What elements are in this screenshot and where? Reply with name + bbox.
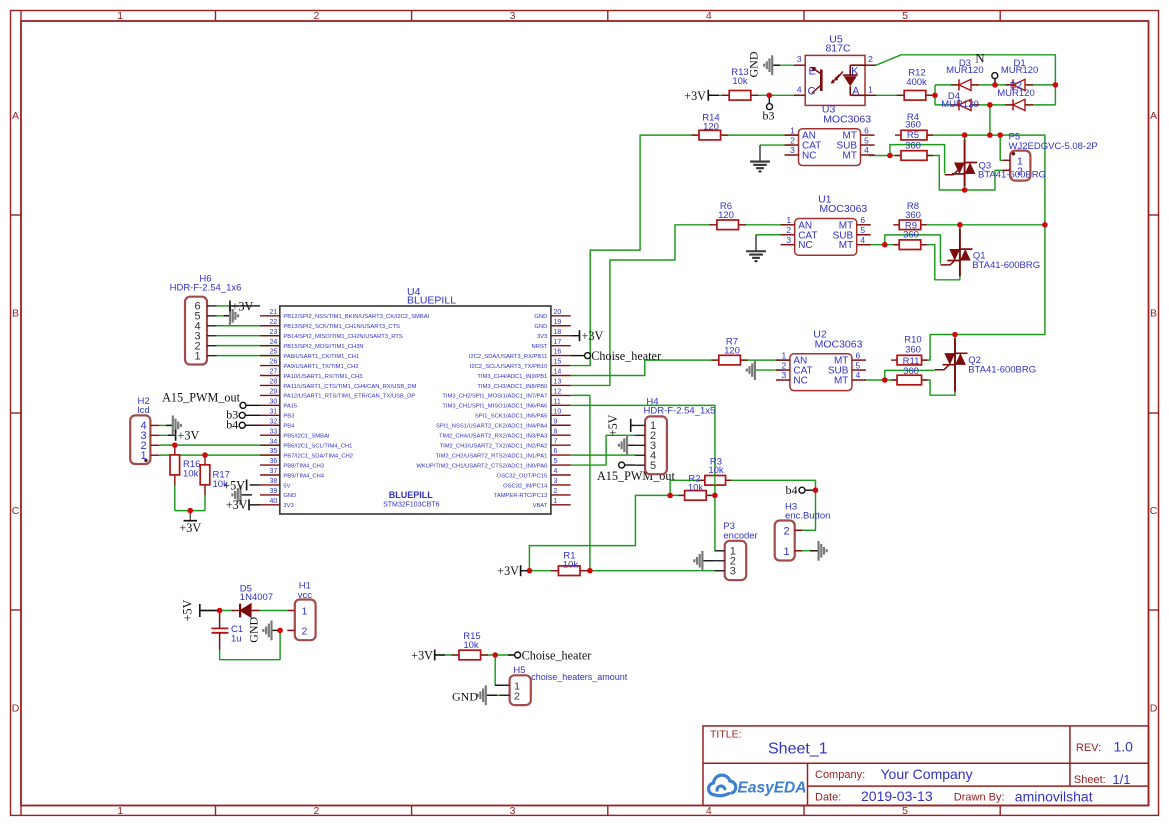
svg-text:PB4: PB4 [283,424,295,430]
svg-text:PB7/I2C1_SDA/TIM4_CH2: PB7/I2C1_SDA/TIM4_CH2 [283,453,353,459]
svg-text:817C: 817C [825,43,851,55]
svg-text:enc.Button: enc.Button [785,511,830,522]
svg-text:BTA41-600BRG: BTA41-600BRG [972,260,1040,271]
svg-text:MT: MT [839,240,853,251]
svg-text:1: 1 [554,498,558,505]
svg-text:PB15/SPI2_MOSI/TIM1_CH3N: PB15/SPI2_MOSI/TIM1_CH3N [283,344,363,350]
svg-text:4: 4 [864,145,869,155]
svg-text:WJ2EDGVC-5.08-2P: WJ2EDGVC-5.08-2P [1009,141,1098,152]
svg-text:N: N [975,51,985,66]
svg-text:36: 36 [270,458,278,465]
svg-text:GND: GND [247,616,261,642]
svg-text:5V: 5V [283,483,290,489]
svg-text:360: 360 [905,141,921,152]
svg-text:1: 1 [868,84,873,94]
svg-text:Your Company: Your Company [881,766,973,782]
svg-text:1: 1 [117,10,123,22]
svg-text:Sheet_1: Sheet_1 [768,741,828,758]
svg-text:39: 39 [270,488,278,495]
svg-text:GND: GND [283,493,296,499]
svg-text:BLUEPILL: BLUEPILL [407,295,456,307]
svg-text:10k: 10k [708,465,724,476]
svg-text:SPI1_NSS1/USART2_CK2/ADC1_IN4/: SPI1_NSS1/USART2_CK2/ADC1_IN4/PA4 [436,424,548,430]
svg-text:TITLE:: TITLE: [710,729,742,741]
svg-text:GND: GND [534,324,547,330]
svg-text:26: 26 [270,359,278,366]
svg-text:PB12/SPI2_NSS/TIM1_BKIN/USART3: PB12/SPI2_NSS/TIM1_BKIN/USART3_CK/I2C2_S… [283,314,429,320]
svg-text:5: 5 [860,225,865,235]
svg-text:+3V: +3V [178,429,200,443]
svg-text:I2C2_SDA/USART3_RX/PB11: I2C2_SDA/USART3_RX/PB11 [469,354,547,360]
svg-text:6: 6 [860,215,865,225]
svg-text:27: 27 [270,369,278,376]
svg-text:16: 16 [554,349,562,356]
svg-text:7: 7 [554,438,558,445]
svg-text:C: C [12,505,20,517]
svg-text:5: 5 [650,460,656,472]
svg-text:38: 38 [270,478,278,485]
svg-text:C: C [1150,505,1158,517]
svg-text:1: 1 [786,215,791,225]
svg-text:400k: 400k [906,77,927,88]
svg-text:34: 34 [270,438,278,445]
svg-text:13: 13 [554,379,562,386]
svg-text:2: 2 [514,690,520,702]
svg-text:2: 2 [786,225,791,235]
svg-text:360: 360 [905,119,921,130]
svg-text:33: 33 [270,428,278,435]
svg-text:PB8/TIM4_CH3: PB8/TIM4_CH3 [283,463,324,469]
svg-text:19: 19 [554,319,562,326]
svg-text:choise_heaters_amount: choise_heaters_amount [531,672,628,682]
svg-text:11: 11 [554,398,561,405]
svg-text:Sheet:: Sheet: [1074,774,1106,786]
svg-text:6: 6 [856,350,861,360]
svg-text:MT: MT [834,376,848,387]
svg-text:MOC3063: MOC3063 [823,113,871,125]
svg-text:A15_PWM_out: A15_PWM_out [162,390,240,404]
svg-text:+3V: +3V [232,299,254,313]
svg-text:28: 28 [270,379,278,386]
svg-text:360: 360 [905,344,921,355]
svg-text:15: 15 [554,359,562,366]
svg-text:4: 4 [706,805,712,817]
svg-text:35: 35 [270,448,278,455]
svg-text:b3: b3 [763,109,775,123]
svg-text:A: A [1150,110,1157,122]
svg-text:4: 4 [554,468,558,475]
svg-text:4: 4 [856,370,861,380]
svg-text:PA11/USART1_CTS/TIM1_CH4/CAN_R: PA11/USART1_CTS/TIM1_CH4/CAN_RX/USB_DM [283,384,416,390]
svg-text:2: 2 [1017,165,1023,177]
svg-text:B: B [12,308,19,320]
svg-text:OSC32_IN/PC14: OSC32_IN/PC14 [503,483,548,489]
svg-text:23: 23 [270,329,278,336]
svg-text:1N4007: 1N4007 [240,592,273,603]
svg-text:6: 6 [864,125,869,135]
svg-text:3V3: 3V3 [283,503,293,509]
svg-text:PB6/I2C1_SCL/TIM4_CH1: PB6/I2C1_SCL/TIM4_CH1 [283,443,352,449]
svg-text:10k: 10k [688,482,704,493]
svg-text:1: 1 [782,350,787,360]
svg-text:5: 5 [864,135,869,145]
svg-text:18: 18 [554,329,562,336]
svg-text:+5V: +5V [606,414,620,436]
svg-text:GND: GND [452,689,478,703]
svg-text:TIM2_CH4/USART2_RX2/ADC1_IN3/P: TIM2_CH4/USART2_RX2/ADC1_IN3/PA3 [439,434,547,440]
svg-text:SPI1_SCK1/ADC1_IN5/PA5: SPI1_SCK1/ADC1_IN5/PA5 [475,414,547,420]
svg-text:I2C2_SCL/USART3_TX/PB10: I2C2_SCL/USART3_TX/PB10 [470,364,548,370]
svg-text:10k: 10k [563,560,579,571]
svg-text:+3V: +3V [411,648,433,662]
svg-text:MUR120: MUR120 [941,99,979,110]
svg-text:5: 5 [856,360,861,370]
svg-text:H5: H5 [513,665,525,676]
svg-text:TIM3_CH1/SPI1_MISO1/ADC1_IN6/P: TIM3_CH1/SPI1_MISO1/ADC1_IN6/PA6 [442,404,547,410]
svg-text:+3V: +3V [684,89,706,103]
svg-text:MT: MT [843,151,857,162]
svg-text:encoder: encoder [723,530,757,541]
svg-text:4: 4 [706,10,712,22]
svg-text:1: 1 [194,350,200,362]
svg-text:2: 2 [783,525,789,537]
svg-text:aminovilshat: aminovilshat [1015,789,1093,805]
svg-text:30: 30 [270,398,278,405]
svg-text:HDR-F-2.54_1x5: HDR-F-2.54_1x5 [644,406,716,417]
svg-text:GND: GND [747,51,761,77]
svg-text:29: 29 [270,389,278,396]
svg-text:Date:: Date: [815,792,841,804]
svg-text:1: 1 [302,606,308,618]
svg-text:6: 6 [554,448,558,455]
svg-text:360: 360 [903,229,919,240]
svg-text:22: 22 [270,319,278,326]
svg-text:A: A [12,110,19,122]
svg-text:120: 120 [718,210,734,221]
svg-text:PA12/USART1_RTS/TIM1_ETR/CAN_T: PA12/USART1_RTS/TIM1_ETR/CAN_TX/USB_DP [283,394,415,400]
svg-text:D: D [1150,703,1158,715]
svg-text:360: 360 [905,210,921,221]
svg-text:2: 2 [313,10,319,22]
svg-text:+3V: +3V [179,521,201,535]
svg-text:PA8/USART1_CK/TIM1_CH1: PA8/USART1_CK/TIM1_CH1 [283,354,359,360]
svg-text:B: B [1150,308,1157,320]
svg-text:31: 31 [270,408,278,415]
svg-text:TIM2_CH2/USART2_RTS2/ADC1_IN1/: TIM2_CH2/USART2_RTS2/ADC1_IN1/PA1 [436,453,548,459]
svg-text:32: 32 [270,418,278,425]
svg-text:25: 25 [270,349,278,356]
svg-text:37: 37 [270,468,278,475]
svg-text:2: 2 [554,488,558,495]
svg-text:360: 360 [903,366,919,377]
svg-text:Drawn By:: Drawn By: [954,792,1005,804]
svg-text:b4: b4 [226,418,238,432]
svg-text:NC: NC [798,240,812,251]
svg-text:NC: NC [793,376,807,387]
svg-text:PB3: PB3 [283,414,294,420]
svg-text:+5V: +5V [223,478,245,492]
svg-text:PB13/SPI2_SCK/TIM1_CH1N/USART3: PB13/SPI2_SCK/TIM1_CH1N/USART3_CTS [283,324,400,330]
svg-text:2: 2 [302,625,308,637]
svg-text:10k: 10k [463,640,479,651]
svg-text:3: 3 [790,145,795,155]
svg-text:3: 3 [797,54,802,64]
svg-text:PB5/I2C1_SMBAI: PB5/I2C1_SMBAI [283,434,329,440]
svg-text:+5V: +5V [181,599,195,621]
svg-text:BTA41-600BRG: BTA41-600BRG [968,364,1036,375]
svg-text:120: 120 [724,345,740,356]
svg-text:2: 2 [313,805,319,817]
svg-text:12: 12 [554,389,562,396]
svg-text:TIM2_CH3/USART2_TX2/ADC1_IN2/P: TIM2_CH3/USART2_TX2/ADC1_IN2/PA2 [440,443,548,449]
svg-text:10k: 10k [183,468,199,479]
svg-text:NC: NC [802,151,816,162]
svg-text:120: 120 [703,122,719,133]
svg-text:8: 8 [554,428,558,435]
svg-text:3: 3 [510,10,516,22]
svg-text:2: 2 [790,135,795,145]
svg-text:REV:: REV: [1076,742,1101,754]
svg-text:1: 1 [783,546,789,558]
svg-text:3: 3 [730,565,736,577]
svg-text:PA15: PA15 [283,404,297,410]
svg-text:b4: b4 [786,483,798,497]
svg-text:GND: GND [534,314,547,320]
svg-text:PA10/USART1_RX/TIM1_CH3: PA10/USART1_RX/TIM1_CH3 [283,374,362,380]
svg-text:40: 40 [270,498,278,505]
svg-text:Choise_heater: Choise_heater [522,648,592,662]
svg-text:TIM3_CH3/ADC1_IN8/PB0: TIM3_CH3/ADC1_IN8/PB0 [477,384,547,390]
svg-text:1/1: 1/1 [1112,772,1130,787]
svg-text:WKUP/TIM2_CH1/USART2_CTS2/ADC1: WKUP/TIM2_CH1/USART2_CTS2/ADC1_IN0/PA0 [416,463,547,469]
svg-text:4: 4 [797,84,802,94]
svg-text:20: 20 [554,309,562,316]
svg-text:3: 3 [782,370,787,380]
svg-text:PA9/USART1_TX/TIM1_CH2: PA9/USART1_TX/TIM1_CH2 [283,364,358,370]
svg-text:lcd: lcd [138,405,150,416]
svg-text:14: 14 [554,369,562,376]
svg-text:5: 5 [554,458,558,465]
svg-text:9: 9 [554,418,558,425]
svg-text:1u: 1u [231,634,242,645]
svg-text:3: 3 [510,805,516,817]
svg-text:3: 3 [554,478,558,485]
svg-text:NRST: NRST [532,344,548,350]
svg-text:D: D [12,703,20,715]
svg-text:PB14/SPI2_MISO/TIM1_CH2N/USART: PB14/SPI2_MISO/TIM1_CH2N/USART3_RTS [283,334,402,340]
svg-text:3V3: 3V3 [537,334,547,340]
svg-text:1: 1 [790,125,795,135]
svg-text:MOC3063: MOC3063 [815,338,863,350]
svg-text:2: 2 [782,360,787,370]
svg-text:5: 5 [902,10,908,22]
svg-text:2019-03-13: 2019-03-13 [861,788,933,804]
svg-text:OSC32_OUT/PC15: OSC32_OUT/PC15 [497,473,548,479]
svg-text:VBAT: VBAT [533,503,548,509]
svg-text:21: 21 [270,309,278,316]
svg-text:10: 10 [554,408,562,415]
svg-text:STM32F103CBT6: STM32F103CBT6 [383,502,440,509]
svg-text:4: 4 [860,235,865,245]
svg-text:+3V: +3V [226,498,248,512]
svg-text:+3V: +3V [497,564,519,578]
svg-text:2: 2 [868,54,873,64]
svg-text:TAMPER-RTC/PC13: TAMPER-RTC/PC13 [494,493,548,499]
svg-text:HDR-F-2.54_1x6: HDR-F-2.54_1x6 [170,283,242,294]
svg-text:TIM3_CH2/SPI1_MOSI1/ADC1_IN7/P: TIM3_CH2/SPI1_MOSI1/ADC1_IN7/PA7 [442,394,547,400]
svg-text:3: 3 [786,235,791,245]
svg-text:vcc: vcc [298,590,313,601]
svg-text:24: 24 [270,339,278,346]
svg-text:Choise_heater: Choise_heater [591,349,661,363]
svg-text:MUR120: MUR120 [1001,65,1039,76]
svg-text:R5: R5 [907,130,919,141]
svg-text:5: 5 [902,805,908,817]
svg-text:17: 17 [554,339,562,346]
svg-text:MUR120: MUR120 [946,65,984,76]
svg-text:+3V: +3V [582,329,604,343]
svg-text:PB9/TIM4_CH4: PB9/TIM4_CH4 [283,473,324,479]
svg-text:1: 1 [117,805,123,817]
svg-text:EasyEDA: EasyEDA [738,780,807,797]
svg-text:1.0: 1.0 [1114,739,1134,755]
svg-text:TIM3_CH4/ADC1_IN9/PB1: TIM3_CH4/ADC1_IN9/PB1 [477,374,547,380]
svg-text:BLUEPILL: BLUEPILL [389,490,434,500]
svg-text:Company:: Company: [815,769,865,781]
svg-text:MUR120: MUR120 [997,88,1035,99]
svg-text:MOC3063: MOC3063 [819,203,867,215]
